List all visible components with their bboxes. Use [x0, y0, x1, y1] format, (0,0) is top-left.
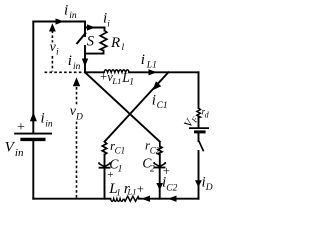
current arrow i_in top rail: [56, 18, 65, 24]
voltage arrow v_i dashed shaft lower: [51, 56, 53, 72]
switch D blade: [199, 141, 204, 152]
capacitor C1 flat plate: [99, 167, 111, 169]
voltage arrow v_D head: [73, 77, 80, 86]
svg-text:in: in: [15, 147, 24, 159]
svg-text:i: i: [41, 111, 45, 127]
diagonal wire A node to rC2: [85, 72, 160, 141]
wire switch bottom bar: [85, 51, 104, 54]
resistor rL1 bottom rail: [124, 196, 139, 201]
capacitor C2 flat plate: [154, 167, 166, 169]
battery VF long plate: [189, 127, 209, 129]
svg-text:i: i: [141, 52, 145, 68]
svg-text:D: D: [75, 113, 83, 123]
svg-text:C2: C2: [150, 145, 161, 155]
wire right rail mid: [198, 118, 200, 128]
voltage arrow v_i dashed shaft upper: [51, 31, 53, 43]
svg-text:+: +: [100, 70, 107, 84]
wire C2 to bottom rail: [159, 168, 161, 199]
wire rC1 to C1: [104, 155, 106, 167]
label V_F rotated: [182, 113, 200, 130]
wire i_i branch: [85, 28, 105, 31]
battery Vin long plate: [14, 133, 52, 135]
svg-text:i: i: [152, 93, 156, 109]
svg-text:i: i: [56, 48, 59, 58]
current arrow bottom rail right: [168, 196, 177, 202]
wire switch to node: [84, 46, 86, 72]
wire switch branch vertical upper: [84, 22, 86, 37]
diagonal wire B top line to rC1: [105, 72, 169, 141]
current arrow i_D: [195, 180, 202, 187]
svg-text:in: in: [45, 120, 53, 130]
svg-text:R: R: [110, 35, 120, 51]
voltage arrow v_D dashed shaft lower: [76, 122, 78, 199]
current arrow i_in left rail: [30, 112, 37, 121]
resistor rd: [197, 108, 201, 118]
svg-text:+: +: [17, 120, 25, 135]
resistor rC1: [102, 142, 106, 155]
current arrow i_L1: [149, 69, 158, 75]
wire inductor branch left: [85, 71, 104, 73]
svg-text:i: i: [68, 53, 72, 69]
svg-text:1: 1: [116, 187, 121, 197]
svg-text:C2: C2: [166, 183, 177, 193]
voltage arrow v_D dashed shaft upper: [76, 87, 78, 106]
wire right rail below VF battery: [198, 133, 200, 141]
voltage arrow v_i head: [49, 23, 56, 31]
svg-text:C1: C1: [157, 101, 168, 111]
svg-text:+: +: [107, 169, 113, 181]
wire C1 to bottom rail: [104, 168, 106, 198]
svg-text:S: S: [87, 34, 95, 50]
resistor Rl: [100, 31, 107, 51]
capacitor C2 curved plate: [154, 162, 165, 167]
svg-text:2: 2: [150, 164, 155, 174]
wire left rail lower: [32, 141, 34, 199]
wire rC2 to C2: [159, 155, 161, 166]
svg-text:D: D: [205, 183, 213, 193]
svg-text:d: d: [205, 110, 210, 119]
current arrow i_in middle: [82, 59, 88, 67]
svg-text:in: in: [73, 62, 81, 72]
svg-text:1: 1: [118, 165, 123, 175]
wire bottom rail left: [33, 198, 110, 200]
svg-text:in: in: [69, 11, 77, 21]
battery Vin short plate: [20, 138, 45, 141]
svg-text:L1: L1: [111, 76, 121, 86]
current arrow i_i: [87, 24, 96, 30]
svg-text:l: l: [122, 43, 125, 53]
resistor rC2: [158, 142, 162, 155]
dashed measurement line horizontal: [45, 71, 84, 73]
svg-text:L1: L1: [146, 60, 157, 70]
svg-text:i: i: [64, 3, 68, 19]
wire left rail upper: [32, 22, 34, 133]
current arrow bottom rail left: [142, 196, 151, 202]
svg-text:+: +: [137, 182, 144, 196]
wire top rail: [33, 21, 85, 23]
switch S blade: [77, 33, 87, 45]
inductor L1 top branch: [104, 70, 129, 73]
wire right rail lower: [198, 151, 200, 199]
battery VF short plate: [194, 130, 206, 133]
inductor L1 bottom rail: [111, 199, 124, 202]
capacitor C1 curved plate: [99, 162, 110, 167]
wire bottom rail right: [139, 198, 199, 200]
current arrow i_C1 on diagonal B: [153, 81, 162, 90]
wire inductor branch right: [129, 71, 199, 73]
svg-text:C1: C1: [115, 145, 126, 155]
svg-text:i: i: [107, 20, 110, 30]
wire right rail upper: [198, 72, 200, 108]
svg-text:1: 1: [129, 78, 134, 88]
current arrow i_C2: [156, 183, 163, 190]
